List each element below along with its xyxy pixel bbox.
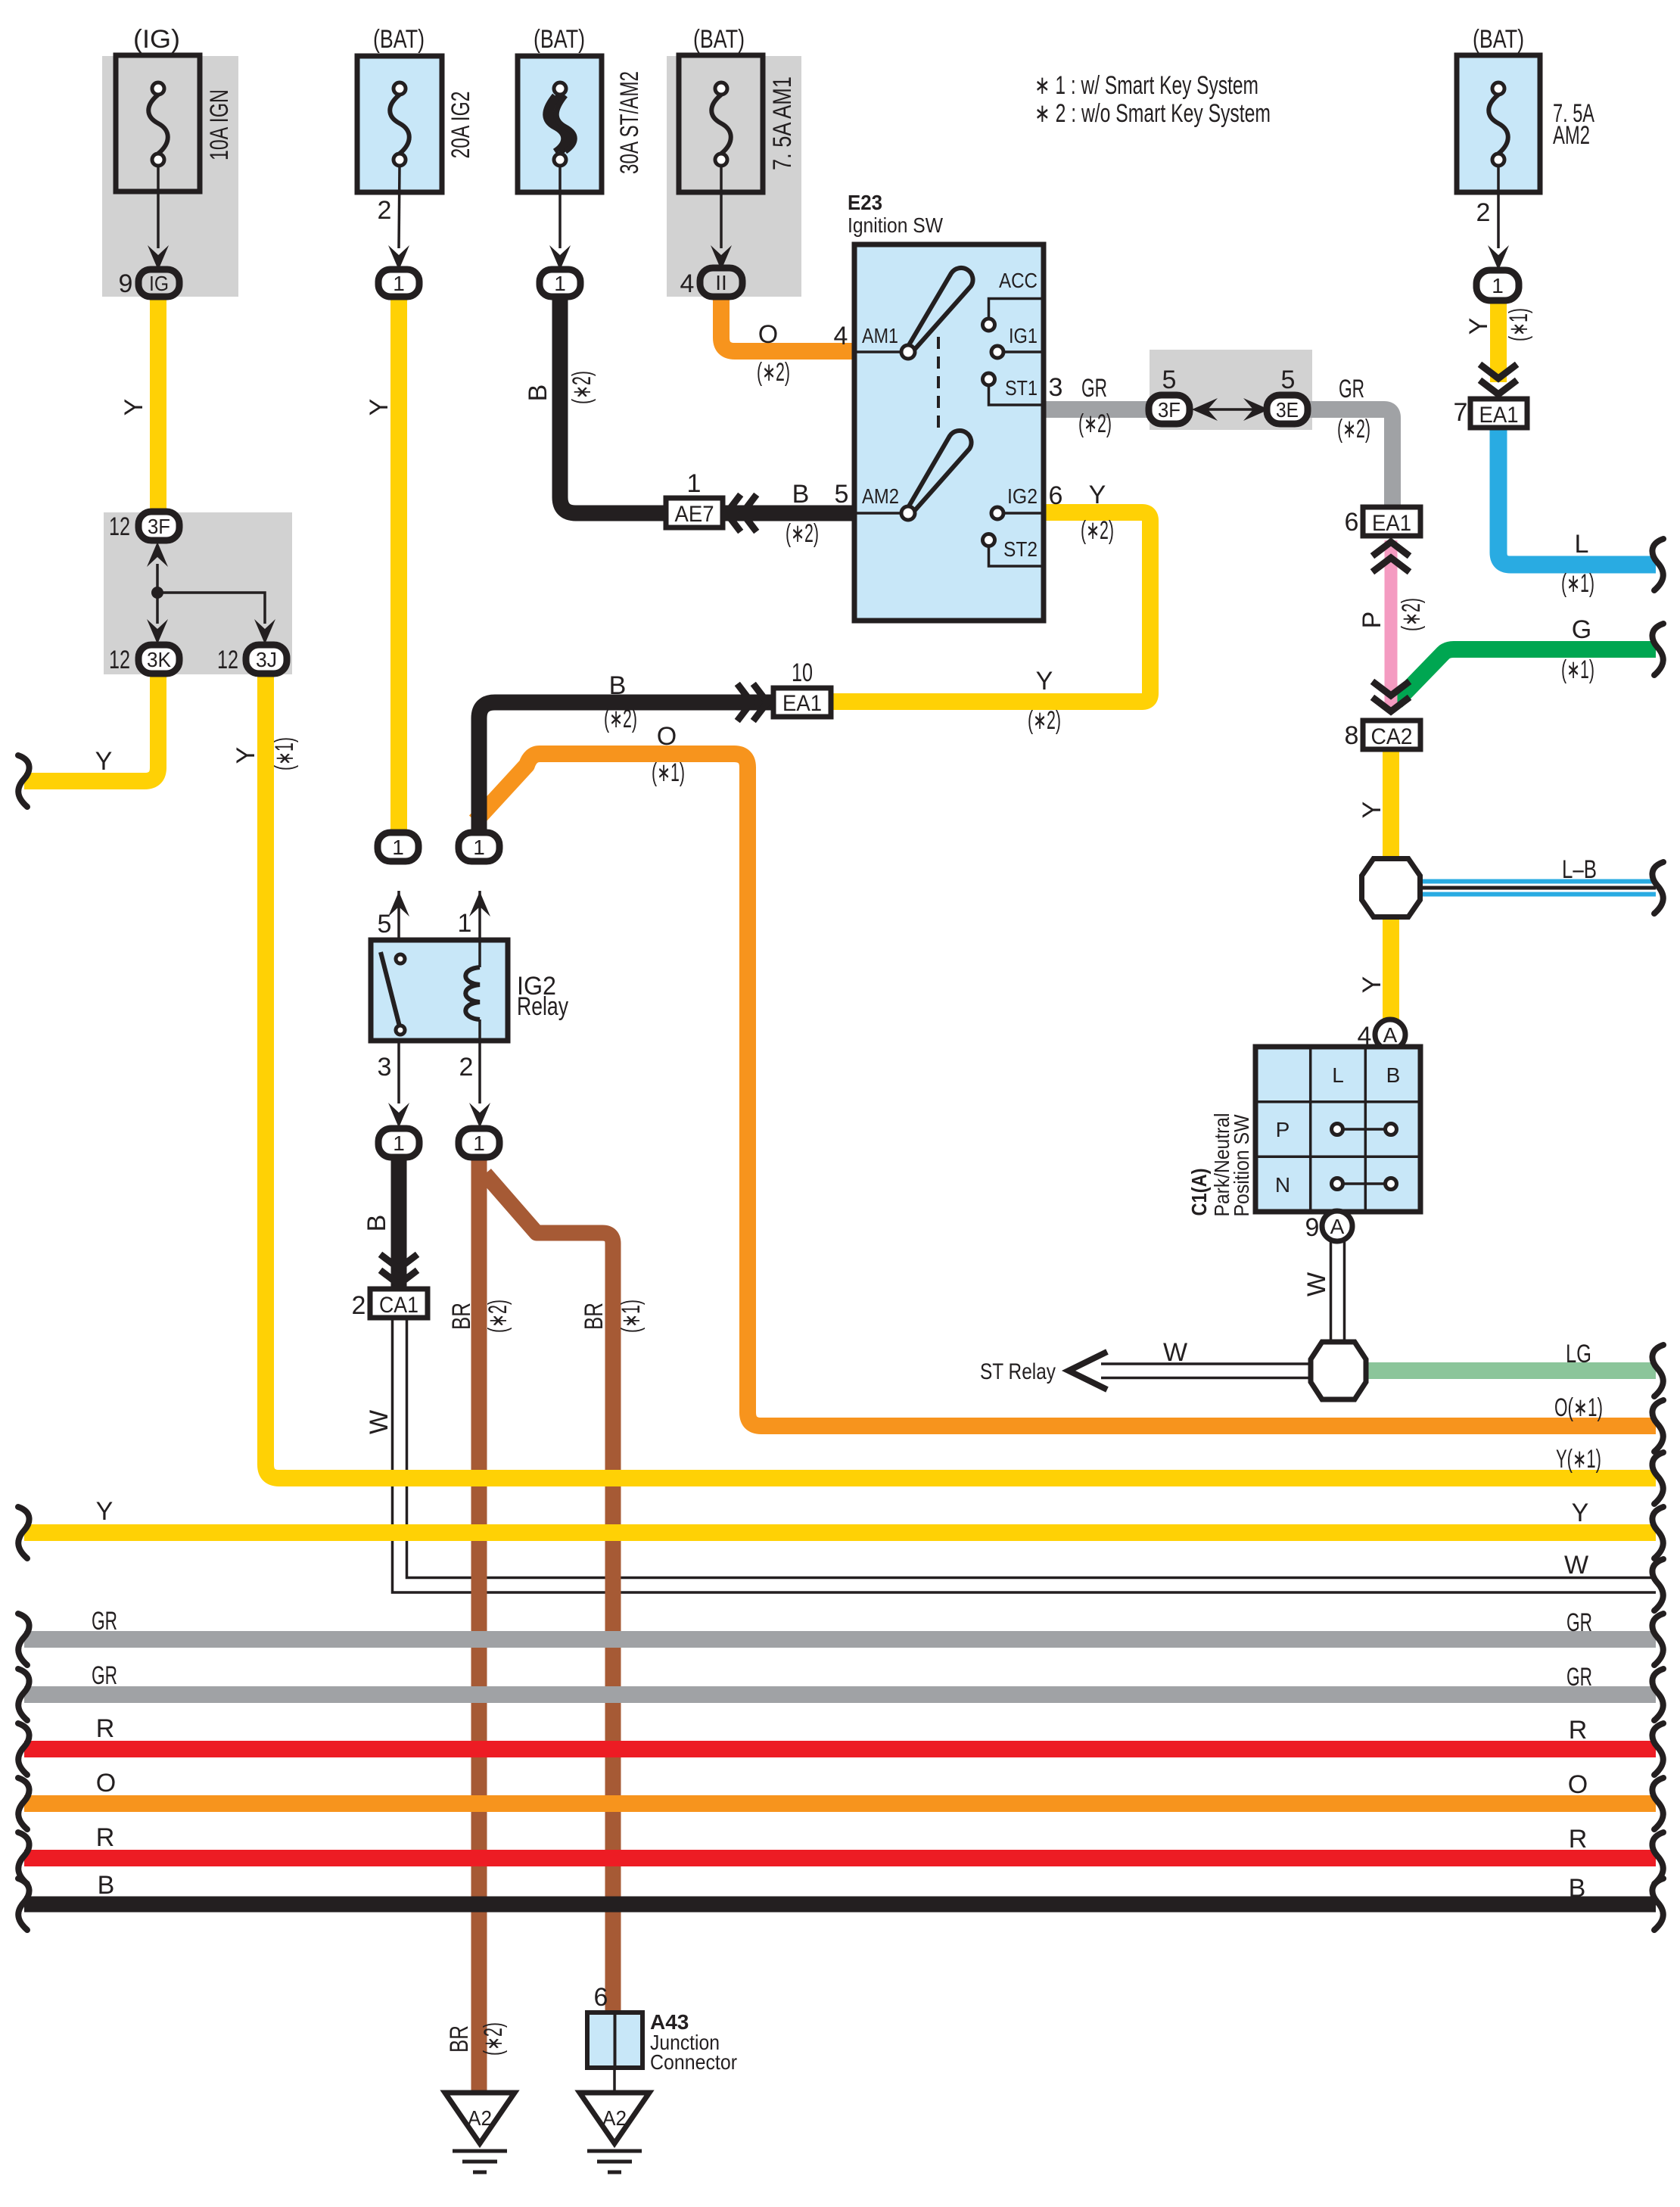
svg-text:(BAT): (BAT) <box>534 25 585 54</box>
wire O(*2) fuse F4 to E23 AM1 <box>721 295 856 351</box>
relay IG2 <box>371 891 568 1128</box>
wire W from CA1 to W bus <box>393 1318 1657 1592</box>
wire label Y (*2) at IG2 pin <box>1081 481 1114 545</box>
wire Y octagon to P/N switch pin 4A <box>1383 914 1399 1023</box>
park/neutral position switch C1(A) <box>1187 1047 1420 1217</box>
svg-text:B: B <box>1569 1874 1586 1903</box>
svg-text:E23: E23 <box>848 191 882 214</box>
svg-text:3F: 3F <box>1158 398 1181 422</box>
svg-text:12: 12 <box>109 512 130 541</box>
svg-text:A2: A2 <box>602 2106 627 2130</box>
svg-text:L: L <box>1332 1063 1344 1087</box>
svg-text:6: 6 <box>594 1983 608 2012</box>
junction octagon 1 <box>1362 859 1420 917</box>
terminal 1 of fuse F5 <box>1476 270 1519 300</box>
wire GR bus 2 <box>24 1686 1656 1703</box>
svg-text:Y: Y <box>95 747 113 776</box>
svg-text:9: 9 <box>119 269 133 298</box>
break symbol L right <box>1652 539 1663 590</box>
svg-text:A: A <box>1383 1023 1398 1047</box>
svg-text:L: L <box>1575 530 1589 559</box>
wire GR 3E to EA1 6 <box>1305 409 1392 509</box>
svg-text:(∗2): (∗2) <box>568 371 596 404</box>
svg-text:4: 4 <box>834 322 848 350</box>
svg-text:P: P <box>1276 1118 1290 1141</box>
fuse F1 10A IGN <box>116 25 234 298</box>
svg-text:IG: IG <box>149 272 169 295</box>
svg-text:AM2: AM2 <box>862 484 899 508</box>
break symbol Y bus left <box>18 1507 30 1558</box>
shaded area connectors 3F/3K/3J <box>104 512 292 674</box>
svg-text:R: R <box>96 1823 115 1852</box>
svg-text:W: W <box>365 1410 394 1434</box>
svg-text:1: 1 <box>473 1132 485 1155</box>
svg-text:AM1: AM1 <box>862 324 898 347</box>
svg-text:GR: GR <box>1566 1608 1592 1637</box>
svg-text:AE7: AE7 <box>675 502 714 527</box>
svg-text:1: 1 <box>393 272 405 295</box>
svg-text:Y: Y <box>96 1497 114 1526</box>
svg-text:ST1: ST1 <box>1005 376 1038 400</box>
terminal 1 above relay pin 1 <box>459 833 499 861</box>
svg-text:IG1: IG1 <box>1009 324 1038 347</box>
svg-text:Y: Y <box>1358 976 1386 994</box>
wire R bus 1 <box>24 1741 1656 1757</box>
svg-text:O: O <box>758 320 778 349</box>
svg-text:(∗2): (∗2) <box>1078 409 1112 438</box>
wire label B (*2) at EA1 10 <box>604 671 637 733</box>
break symbol GR1 right <box>1652 1614 1663 1665</box>
break symbol W right <box>1652 1559 1663 1611</box>
arrowhead to ST Relay <box>1069 1352 1107 1390</box>
svg-text:(∗1): (∗1) <box>270 737 299 770</box>
svg-text:Y: Y <box>232 747 260 764</box>
svg-text:(∗2): (∗2) <box>786 519 819 548</box>
svg-text:BR: BR <box>445 2025 474 2053</box>
shaded area connectors 3F/3E <box>1150 350 1312 430</box>
svg-text:R: R <box>1569 1716 1588 1745</box>
svg-text:LG: LG <box>1566 1340 1591 1368</box>
svg-text:1: 1 <box>473 836 485 859</box>
svg-text:A2: A2 <box>468 2106 492 2130</box>
connector AE7 <box>666 469 754 529</box>
svg-text:(IG): (IG) <box>133 25 180 54</box>
svg-text:Relay: Relay <box>517 992 568 1021</box>
wire B(*2) AE7 to E23 AM2 <box>719 506 856 521</box>
break symbol O(*1) right <box>1652 1400 1663 1452</box>
svg-text:3F: 3F <box>148 515 170 538</box>
wire W from octagon to ST Relay arrow <box>1101 1364 1313 1378</box>
svg-text:(∗2): (∗2) <box>1397 598 1426 631</box>
break symbol Y bus right <box>1652 1507 1663 1558</box>
E23 AM1 pin and lever <box>834 268 973 359</box>
break symbol GR2 right <box>1652 1669 1663 1720</box>
wire B fuse F3 to AE7 <box>560 295 669 513</box>
svg-text:IG2: IG2 <box>1007 484 1038 508</box>
wire Y fuse F1 to connector 3F <box>150 294 166 515</box>
svg-text:GR: GR <box>92 1661 117 1690</box>
wire GR bus 1 <box>24 1631 1656 1648</box>
wire label BR (*1) <box>580 1300 646 1333</box>
svg-text:EA1: EA1 <box>782 691 822 716</box>
wire GR E23 ST1 to 3F <box>1042 401 1152 418</box>
svg-text:10A IGN: 10A IGN <box>205 89 234 160</box>
svg-text:O: O <box>1568 1770 1588 1799</box>
svg-text:(∗2): (∗2) <box>757 358 790 387</box>
wire Y fuse F2 to IG2 relay pin 5 <box>390 294 407 836</box>
svg-text:(∗1): (∗1) <box>1561 655 1594 684</box>
break symbol GR1 left <box>18 1614 30 1665</box>
connector EA1 6 <box>1345 507 1420 570</box>
svg-text:(∗2): (∗2) <box>1028 706 1061 735</box>
wire label Y (*1) at 3J wire <box>232 737 299 770</box>
E23 IG1 contact <box>991 324 1042 358</box>
svg-text:R: R <box>96 1714 115 1743</box>
svg-text:1: 1 <box>554 272 566 295</box>
svg-text:(∗1): (∗1) <box>617 1300 646 1333</box>
svg-text:Y: Y <box>1089 481 1106 509</box>
svg-text:GR: GR <box>92 1607 117 1636</box>
svg-text:AM2: AM2 <box>1553 121 1590 150</box>
break symbol R1 left <box>18 1723 30 1775</box>
wire BR(*2) relay pin 2 to ground A2 <box>471 1150 487 2093</box>
connector CA1 2 <box>352 1256 428 1320</box>
connector pair 3F / 3E <box>1149 366 1308 424</box>
svg-text:12: 12 <box>217 646 238 674</box>
svg-text:B: B <box>1386 1063 1401 1087</box>
svg-text:(∗2): (∗2) <box>604 705 637 733</box>
wire label GR (*2) right of 3E <box>1337 375 1370 444</box>
svg-text:G: G <box>1572 615 1591 644</box>
svg-text:30A ST/AM2: 30A ST/AM2 <box>615 71 644 174</box>
svg-text:7. 5A AM1: 7. 5A AM1 <box>768 76 797 170</box>
svg-text:BR: BR <box>580 1303 608 1330</box>
svg-text:2: 2 <box>1476 198 1491 227</box>
svg-text:II: II <box>715 271 727 294</box>
wire W from P/N switch pin 9A to octagon <box>1331 1241 1345 1344</box>
wire label BR (*2) <box>447 1300 512 1333</box>
svg-text:1: 1 <box>392 836 404 859</box>
wire BR(*1) branch to A43 junction connector <box>485 1174 613 2014</box>
wire G(*1) to CA2 <box>1396 649 1656 702</box>
junction connector A43 <box>587 1983 737 2093</box>
break symbol B right <box>1652 1879 1663 1930</box>
wire R bus 2 <box>24 1850 1656 1866</box>
E23 link dashed line <box>937 337 940 434</box>
terminal 9 A of P/N switch <box>1305 1211 1352 1242</box>
fuse F4 7.5A AM1 <box>679 25 797 298</box>
svg-text:(∗1): (∗1) <box>652 758 685 787</box>
break symbol R2 right <box>1652 1832 1663 1884</box>
wire label BR (*2) lower <box>445 2022 508 2056</box>
svg-text:C1(A): C1(A) <box>1187 1169 1211 1216</box>
connector EA1 7 <box>1454 366 1527 428</box>
wire label O (*2) at AM1 <box>757 320 790 387</box>
legend note <box>1034 71 1271 128</box>
wire O(*1) from relay pin 1 to right break <box>475 754 1656 1426</box>
terminal 3F <box>109 512 179 541</box>
svg-text:ACC: ACC <box>999 269 1038 292</box>
connector EA1 10 <box>739 658 831 718</box>
svg-text:B: B <box>792 480 810 509</box>
ground A2 left <box>445 2093 515 2172</box>
svg-text:N: N <box>1275 1173 1290 1197</box>
wire Y bus <box>24 1524 1656 1541</box>
E23 ST1 contact <box>983 373 1043 405</box>
svg-text:20A IG2: 20A IG2 <box>446 92 475 159</box>
wire Y fuse F5 to EA1 7 <box>1490 298 1507 382</box>
break symbol R1 right <box>1652 1723 1663 1775</box>
svg-text:3: 3 <box>1049 373 1063 402</box>
svg-text:ST2: ST2 <box>1003 537 1038 561</box>
fuse F3 30A ST/AM2 <box>518 25 644 270</box>
terminal 1 below relay pin 3 <box>378 1128 419 1157</box>
svg-text:8: 8 <box>1345 721 1359 750</box>
svg-text:(∗1): (∗1) <box>1504 308 1533 341</box>
break symbol Y left <box>18 755 30 807</box>
svg-text:∗ 1 : w/ Smart Key System: ∗ 1 : w/ Smart Key System <box>1034 71 1258 100</box>
svg-text:(BAT): (BAT) <box>693 25 745 54</box>
wire B relay pin 3 to CA1 <box>391 1150 407 1287</box>
svg-text:B: B <box>362 1215 391 1232</box>
svg-text:BR: BR <box>447 1303 476 1330</box>
svg-text:3J: 3J <box>256 648 277 671</box>
terminal IG of fuse F1 <box>138 269 179 297</box>
shaded area fuse F4 <box>667 56 801 297</box>
wire label GR (*2) left of 3F <box>1078 374 1112 438</box>
svg-text:A: A <box>1330 1215 1345 1238</box>
svg-text:(∗1): (∗1) <box>1561 569 1594 598</box>
svg-text:Y: Y <box>1036 667 1053 696</box>
svg-text:Y: Y <box>1358 802 1386 819</box>
svg-text:1: 1 <box>458 909 472 938</box>
svg-text:(BAT): (BAT) <box>373 25 425 54</box>
svg-text:Ignition SW: Ignition SW <box>848 213 944 237</box>
svg-text:2: 2 <box>459 1053 474 1082</box>
relay coil <box>478 940 481 967</box>
wire P(*2) between EA1 6 and CA2 <box>1385 540 1398 710</box>
E23 AM2 pin and lever <box>857 431 972 520</box>
svg-text:P: P <box>1358 612 1386 629</box>
break symbol LG right <box>1652 1345 1663 1396</box>
E23 IG2 contact <box>991 484 1042 519</box>
svg-text:3K: 3K <box>147 648 171 671</box>
wire Y from 3K to left break <box>24 672 158 781</box>
svg-text:9: 9 <box>1305 1213 1320 1242</box>
terminal 3J <box>217 645 287 674</box>
svg-text:(BAT): (BAT) <box>1473 25 1524 54</box>
wire LG from octagon to right break <box>1362 1362 1656 1379</box>
svg-text:ST Relay: ST Relay <box>980 1359 1056 1384</box>
break symbol O right <box>1652 1778 1663 1829</box>
svg-text:W: W <box>1302 1272 1331 1296</box>
wire L(*1) from EA1 7 to right break <box>1498 424 1656 565</box>
svg-text:2: 2 <box>352 1291 366 1320</box>
svg-text:2: 2 <box>378 196 392 225</box>
svg-text:Y: Y <box>1464 318 1493 335</box>
svg-text:EA1: EA1 <box>1372 511 1411 536</box>
break symbol G right <box>1652 624 1663 675</box>
svg-text:CA1: CA1 <box>379 1293 418 1318</box>
svg-text:7: 7 <box>1454 398 1468 427</box>
svg-text:4: 4 <box>680 269 695 298</box>
svg-text:B: B <box>609 671 627 700</box>
svg-text:3E: 3E <box>1276 398 1299 422</box>
svg-text:Position SW: Position SW <box>1230 1114 1253 1217</box>
svg-text:10: 10 <box>792 658 813 687</box>
wire B(*2) relay pin 1 to EA1 10 <box>479 702 776 836</box>
connector block 3F/3K/3J <box>147 542 275 644</box>
wire Y CA2 to octagon <box>1383 751 1399 863</box>
svg-text:6: 6 <box>1345 508 1359 537</box>
wire label L (*1) <box>1561 530 1594 598</box>
svg-text:L–B: L–B <box>1562 855 1597 884</box>
break symbol B left <box>18 1879 30 1930</box>
E23 ST2 contact <box>983 534 1043 567</box>
svg-text:Y: Y <box>120 399 148 416</box>
svg-text:5: 5 <box>835 480 849 509</box>
wire label P (*2) <box>1358 598 1426 631</box>
terminal 1 above relay pin 5 <box>378 833 418 861</box>
svg-text:O: O <box>96 1769 116 1798</box>
wire label O (*1) orange branch <box>652 722 685 787</box>
wire label Y (*1) at fuse F5 wire <box>1464 308 1533 341</box>
break symbol O left <box>18 1778 30 1829</box>
wire label Y (*2) right of EA1 10 <box>1028 667 1061 735</box>
shaded area fuse F1 <box>102 56 238 297</box>
break symbol L-B right <box>1652 862 1663 914</box>
svg-text:R: R <box>1569 1825 1588 1854</box>
terminal 1 below relay pin 2 <box>459 1128 499 1157</box>
svg-text:1: 1 <box>687 469 702 498</box>
svg-text:CA2: CA2 <box>1371 724 1413 749</box>
svg-text:5: 5 <box>378 910 392 939</box>
svg-text:1: 1 <box>1492 274 1504 297</box>
svg-text:GR: GR <box>1081 374 1107 403</box>
wire label G (*1) <box>1561 615 1594 684</box>
svg-text:Connector: Connector <box>650 2050 737 2074</box>
terminal II of fuse F4 <box>700 268 742 297</box>
svg-text:∗ 2 : w/o Smart Key System: ∗ 2 : w/o Smart Key System <box>1034 99 1271 128</box>
connector CA2 8 <box>1345 683 1420 750</box>
svg-text:(∗2): (∗2) <box>479 2022 508 2056</box>
wire B bus <box>24 1897 1656 1913</box>
wire label B (*2) vertical at fuse F3 <box>524 371 596 404</box>
svg-text:GR: GR <box>1566 1663 1592 1692</box>
svg-text:5: 5 <box>1281 366 1296 394</box>
svg-text:3: 3 <box>378 1053 392 1082</box>
wire L-B from octagon to right break <box>1417 879 1656 897</box>
wire Y(*1) from 3J to right break <box>266 672 1656 1478</box>
svg-text:GR: GR <box>1339 375 1364 403</box>
terminal 4 A of P/N switch <box>1358 1019 1405 1051</box>
svg-text:6: 6 <box>1049 481 1063 510</box>
break symbol GR2 left <box>18 1669 30 1720</box>
svg-text:1: 1 <box>393 1132 405 1155</box>
svg-text:(∗2): (∗2) <box>1337 415 1370 444</box>
svg-text:(∗2): (∗2) <box>484 1300 512 1333</box>
wire label B (*2) at AE7 <box>786 480 848 548</box>
svg-text:W: W <box>1564 1551 1588 1580</box>
svg-text:B: B <box>98 1871 115 1900</box>
break symbol R2 left <box>18 1832 30 1884</box>
break symbol Y(*1) right <box>1652 1452 1663 1504</box>
svg-text:12: 12 <box>109 646 130 674</box>
svg-text:(∗2): (∗2) <box>1081 516 1114 545</box>
terminal 3K <box>109 645 179 674</box>
wire Y(*2) from E23 IG2 pin to EA1 <box>832 512 1150 702</box>
wire O bus <box>24 1795 1656 1812</box>
terminal 1 of fuse F3 <box>540 269 580 297</box>
svg-text:O: O <box>657 722 677 751</box>
svg-text:EA1: EA1 <box>1479 403 1519 428</box>
svg-text:B: B <box>524 384 552 402</box>
svg-text:5: 5 <box>1162 366 1177 394</box>
terminal 1 of fuse F2 <box>378 269 419 297</box>
svg-text:Y: Y <box>365 399 394 416</box>
svg-text:W: W <box>1163 1338 1187 1367</box>
fuse F5 7.5A AM2 <box>1457 25 1594 270</box>
ignition switch E23 <box>834 191 1063 621</box>
svg-text:Y(∗1): Y(∗1) <box>1556 1445 1601 1474</box>
fuse F2 20A IG2 <box>357 25 475 270</box>
E23 ACC contact <box>983 269 1043 331</box>
junction octagon 2 <box>1311 1342 1366 1399</box>
svg-text:O(∗1): O(∗1) <box>1554 1393 1603 1422</box>
ground A2 right <box>580 2093 649 2172</box>
svg-text:Y: Y <box>1572 1499 1589 1527</box>
relay switch blade <box>381 952 400 1026</box>
